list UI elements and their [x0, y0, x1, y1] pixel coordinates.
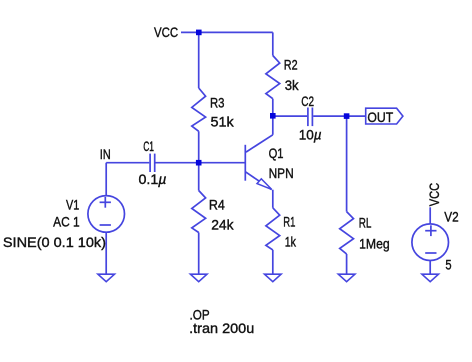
- svg-text:V1: V1: [66, 197, 79, 213]
- svg-text:RL: RL: [359, 214, 372, 230]
- svg-text:IN: IN: [100, 146, 111, 162]
- svg-text:C2: C2: [301, 93, 314, 109]
- svg-text:1Meg: 1Meg: [359, 235, 390, 251]
- svg-text:V2: V2: [444, 209, 459, 225]
- svg-text:Q1: Q1: [269, 145, 284, 161]
- svg-text:OUT: OUT: [367, 109, 393, 125]
- svg-text:R3: R3: [210, 94, 225, 110]
- svg-text:AC 1: AC 1: [53, 214, 80, 230]
- svg-text:NPN: NPN: [269, 165, 294, 181]
- svg-text:3k: 3k: [285, 77, 300, 93]
- svg-text:1k: 1k: [285, 233, 297, 249]
- svg-text:R1: R1: [283, 214, 295, 230]
- svg-text:51k: 51k: [211, 114, 235, 130]
- svg-text:.tran 200u: .tran 200u: [189, 320, 254, 336]
- svg-text:5: 5: [445, 257, 451, 273]
- svg-text:SINE(0 0.1 10k): SINE(0 0.1 10k): [3, 234, 106, 250]
- svg-text:C1: C1: [143, 138, 154, 154]
- svg-text:R4: R4: [209, 196, 225, 212]
- svg-text:0.1µ: 0.1µ: [139, 171, 167, 187]
- svg-text:VCC: VCC: [154, 24, 178, 40]
- svg-text:VCC: VCC: [426, 183, 442, 207]
- svg-text:R2: R2: [284, 57, 298, 73]
- svg-text:10µ: 10µ: [299, 127, 322, 143]
- svg-text:24k: 24k: [211, 216, 234, 232]
